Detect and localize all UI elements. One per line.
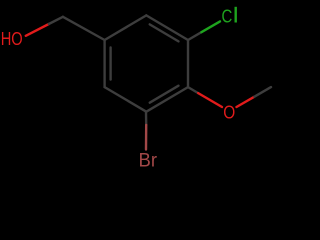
label Cl (chlorine): letter l [235, 7, 237, 23]
ring bond C1-C2 [105, 15, 147, 40]
svg-text:Br: Br [139, 149, 158, 171]
ring bond C4-C5 [146, 87, 188, 112]
bond C3-Cl, Cl half (green) [201, 21, 220, 32]
double bond inner line C4=C5 [150, 86, 179, 103]
ring bond C6-C1 [103, 40, 105, 87]
svg-text:HO: HO [1, 29, 23, 49]
ring bond C2-C3 [146, 15, 188, 40]
bond C5-Br, Br half [145, 125, 148, 150]
ring bond C3-C4 [187, 40, 189, 87]
molecule: (3-bromo-5-chloro-4-methoxyphenyl)methanol skeletal structure [0, 0, 300, 176]
bond O-CH3, C half [254, 87, 271, 97]
ring bond C5-C6 [105, 87, 147, 112]
bond O-CH2, O half (red) [26, 24, 49, 36]
svg-text:O: O [223, 103, 235, 123]
bond O-CH3, O half (red) [237, 97, 255, 107]
svg-text:C: C [222, 6, 233, 26]
bond O-CH2, C half [49, 17, 63, 24]
bond C5-Br, C half [145, 112, 148, 125]
double bond inner line C2=C3 [150, 24, 179, 41]
bond C3-Cl, C half [188, 32, 201, 40]
bond CH2-C1 [63, 17, 105, 40]
bond C4-O, O half (red) [198, 93, 222, 107]
bond C4-O, C half [188, 87, 198, 93]
double bond inner line C6=C1 [109, 48, 111, 80]
